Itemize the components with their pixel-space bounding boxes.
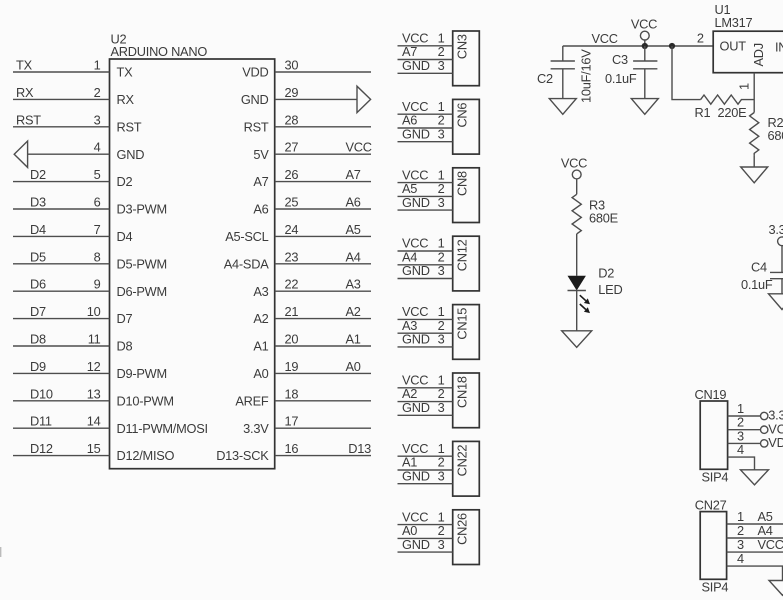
svg-text:16: 16 — [285, 441, 299, 456]
CN8 pin 2 (A5) wire + labels — [398, 181, 453, 196]
svg-text:GND: GND — [241, 92, 269, 107]
svg-text:VCC: VCC — [402, 304, 428, 319]
svg-text:2: 2 — [438, 249, 445, 264]
svg-text:13: 13 — [87, 386, 101, 401]
svg-text:GND: GND — [402, 332, 430, 347]
U2 pin 20 (A1) wire + labels — [253, 332, 371, 354]
svg-text:AREF: AREF — [235, 393, 269, 408]
svg-text:ARDUINO NANO: ARDUINO NANO — [111, 44, 208, 59]
CN22 pin 1 (VCC) wire + labels — [398, 441, 453, 456]
U2 pin 2 (RX) wire + labels — [13, 85, 134, 107]
svg-text:D2: D2 — [117, 174, 133, 189]
U2 pin 9 (D6-PWM) wire + labels — [13, 277, 167, 299]
svg-text:RST: RST — [16, 112, 41, 127]
svg-text:TX: TX — [16, 58, 33, 73]
svg-text:A4: A4 — [402, 249, 417, 264]
svg-text:ADJ: ADJ — [751, 43, 766, 66]
svg-text:GND: GND — [402, 58, 430, 73]
svg-text:D2: D2 — [30, 167, 46, 182]
svg-text:1: 1 — [737, 83, 752, 90]
svg-text:7: 7 — [94, 222, 101, 237]
svg-text:1: 1 — [737, 509, 744, 524]
CN19 pin 2 port VCC — [728, 415, 783, 437]
svg-text:27: 27 — [285, 140, 299, 155]
svg-text:VCC: VCC — [758, 537, 783, 552]
ground under CN27 pin4 — [769, 581, 783, 596]
svg-text:3: 3 — [438, 400, 445, 415]
svg-text:5V: 5V — [253, 147, 269, 162]
svg-text:RST: RST — [117, 119, 142, 134]
capacitor C3 0.1uF — [605, 46, 657, 99]
U2 pin 8 (D5-PWM) wire + labels — [13, 249, 167, 271]
CN6 pin 2 (A6) wire + labels — [398, 113, 453, 128]
power symbol 3.3V — [769, 222, 783, 272]
U1 pin 1 (ADJ) wire + number — [737, 73, 755, 113]
svg-text:OUT: OUT — [720, 39, 747, 54]
svg-text:GND: GND — [402, 126, 430, 141]
U2 pin 3 (RST) wire + labels — [13, 112, 142, 134]
svg-text:11: 11 — [88, 332, 101, 347]
svg-text:GND: GND — [402, 537, 430, 552]
svg-text:18: 18 — [285, 386, 299, 401]
svg-text:23: 23 — [285, 249, 299, 264]
CN18 pin 2 (A2) wire + labels — [398, 386, 453, 401]
svg-text:3: 3 — [438, 263, 445, 278]
ground under CN19 pin4 — [741, 470, 769, 485]
connector CN18 body — [453, 373, 480, 428]
connector CN22 body — [453, 441, 480, 496]
svg-text:VDD: VDD — [242, 65, 268, 80]
svg-text:D11-PWM/MOSI: D11-PWM/MOSI — [117, 421, 208, 436]
svg-text:29: 29 — [285, 85, 299, 100]
svg-text:VCC: VCC — [402, 167, 428, 182]
U2 pin 14 (D11-PWM/MOSI) wire + labels — [13, 414, 208, 436]
wire VCC branch down to R1 — [672, 46, 701, 100]
U2 pin 22 (A3) wire + labels — [253, 277, 371, 299]
CN26 pin 2 (A0) wire + labels — [398, 523, 453, 538]
svg-text:A3: A3 — [346, 277, 361, 292]
svg-text:A0: A0 — [346, 359, 361, 374]
CN18 pin 1 (VCC) wire + labels — [398, 373, 453, 388]
svg-text:0.1uF: 0.1uF — [741, 277, 773, 292]
svg-text:CN22: CN22 — [454, 445, 469, 477]
svg-text:D12: D12 — [30, 441, 53, 456]
U2 pin 26 (A7) wire + labels — [253, 167, 371, 189]
U2 pin 19 (A0) wire + labels — [253, 359, 371, 381]
svg-text:D7: D7 — [30, 304, 46, 319]
svg-text:D10: D10 — [30, 386, 53, 401]
U2 pin 29 (GND) wire + labels — [241, 85, 371, 113]
svg-text:3: 3 — [438, 126, 445, 141]
U2 pin 25 (A6) wire + labels — [253, 195, 371, 217]
CN27 pin 3 wire + label VCC — [727, 537, 783, 552]
connector CN19 body — [695, 387, 729, 484]
U2 pin 13 (D10-PWM) wire + labels — [13, 386, 174, 408]
capacitor C4 0.1uF — [741, 259, 783, 294]
svg-text:SIP4: SIP4 — [702, 579, 729, 594]
svg-text:D4: D4 — [30, 222, 46, 237]
U2 pin 23 (A4-SDA) wire + labels — [224, 249, 371, 271]
U2 pin 24 (A5-SCL) wire + labels — [225, 222, 371, 244]
svg-text:D13: D13 — [348, 441, 371, 456]
ground under C3 — [631, 99, 658, 115]
svg-text:GND: GND — [402, 263, 430, 278]
CN26 pin 3 (GND) wire + labels — [398, 537, 453, 552]
U2 pin 27 (5V) wire + labels — [253, 140, 371, 162]
svg-text:22: 22 — [285, 277, 299, 292]
CN8 pin 3 (GND) wire + labels — [398, 195, 453, 210]
svg-text:D10-PWM: D10-PWM — [117, 393, 174, 408]
svg-text:D3-PWM: D3-PWM — [117, 202, 167, 217]
svg-text:D9: D9 — [30, 359, 46, 374]
svg-text:3: 3 — [438, 332, 445, 347]
svg-text:3: 3 — [438, 58, 445, 73]
svg-text:3: 3 — [94, 112, 101, 127]
junction dot at VCC symbol — [642, 43, 648, 49]
svg-text:4: 4 — [94, 140, 101, 155]
svg-text:CN6: CN6 — [454, 103, 469, 128]
svg-text:C2: C2 — [537, 71, 553, 86]
svg-text:5: 5 — [94, 167, 101, 182]
svg-text:GND: GND — [402, 400, 430, 415]
svg-text:17: 17 — [285, 414, 299, 429]
svg-text:CN3: CN3 — [454, 34, 469, 59]
svg-text:D8: D8 — [30, 332, 46, 347]
svg-text:14: 14 — [87, 414, 101, 429]
svg-text:19: 19 — [285, 359, 299, 374]
svg-text:TX: TX — [117, 65, 134, 80]
svg-text:9: 9 — [94, 277, 101, 292]
IC U2 ARDUINO NANO body — [110, 32, 275, 469]
U2 pin 5 (D2) wire + labels — [13, 167, 132, 189]
svg-text:D11: D11 — [30, 414, 52, 429]
svg-text:D7: D7 — [117, 311, 133, 326]
clipped mark at left edge — [0, 547, 2, 557]
U2 pin 15 (D12/MISO) wire + labels — [13, 441, 175, 463]
svg-text:2: 2 — [697, 31, 704, 46]
svg-text:3: 3 — [737, 537, 744, 552]
svg-text:1: 1 — [438, 441, 445, 456]
U2 pin 17 (3.3V) wire + labels — [243, 414, 371, 436]
CN12 pin 3 (GND) wire + labels — [398, 263, 453, 278]
CN19 pin 4 wire to ground — [728, 442, 755, 470]
U1 pin 2 number — [697, 31, 704, 46]
wire VCC rail to U1 OUT — [563, 45, 713, 47]
svg-text:1: 1 — [438, 99, 445, 114]
svg-text:28: 28 — [285, 112, 299, 127]
U2 pin 28 (RST) wire + labels — [244, 112, 371, 134]
svg-text:VCC: VCC — [402, 99, 428, 114]
svg-text:1: 1 — [438, 167, 445, 182]
svg-text:26: 26 — [285, 167, 299, 182]
svg-text:21: 21 — [285, 304, 299, 319]
svg-text:D5: D5 — [30, 249, 46, 264]
CN19 pin 1 port 3.3V — [728, 401, 783, 423]
svg-text:A2: A2 — [402, 386, 417, 401]
junction dot at R1 branch — [669, 43, 675, 49]
svg-text:GND: GND — [402, 468, 430, 483]
CN15 pin 2 (A3) wire + labels — [398, 318, 453, 333]
svg-text:A3: A3 — [253, 284, 268, 299]
connector CN27 body — [695, 497, 729, 594]
svg-text:4: 4 — [737, 442, 744, 457]
svg-text:LM317: LM317 — [715, 15, 753, 30]
U2 pin 10 (D7) wire + labels — [13, 304, 132, 326]
CN3 pin 1 (VCC) wire + labels — [398, 31, 453, 46]
svg-text:A1: A1 — [346, 332, 361, 347]
svg-text:D6-PWM: D6-PWM — [117, 284, 167, 299]
CN27 pin 4 wire to ground — [727, 551, 783, 580]
svg-text:SIP4: SIP4 — [702, 470, 729, 485]
U2 pin 21 (A2) wire + labels — [253, 304, 371, 326]
svg-text:CN12: CN12 — [454, 239, 469, 271]
ground under LED — [562, 331, 592, 348]
power symbol VCC (top) — [631, 16, 657, 46]
U2 pin 30 (VDD) wire + labels — [242, 58, 371, 80]
CN18 pin 3 (GND) wire + labels — [398, 400, 453, 415]
U2 pin 7 (D4) wire + labels — [13, 222, 132, 244]
power symbol VCC (LED branch) — [561, 155, 587, 194]
ground under C2 — [549, 99, 576, 115]
svg-text:3.3V: 3.3V — [769, 222, 783, 237]
CN12 pin 2 (A4) wire + labels — [398, 249, 453, 264]
svg-text:680E: 680E — [768, 128, 783, 143]
svg-text:12: 12 — [87, 359, 101, 374]
U2 pin 11 (D8) wire + labels — [13, 332, 132, 354]
svg-text:RST: RST — [244, 119, 269, 134]
svg-text:10: 10 — [87, 304, 101, 319]
svg-text:RX: RX — [16, 85, 34, 100]
svg-text:A7: A7 — [402, 44, 417, 59]
CN6 pin 3 (GND) wire + labels — [398, 126, 453, 141]
U2 pin 16 (D13-SCK) wire + labels — [216, 441, 371, 463]
CN27 pin 1 wire + label A5 — [727, 509, 783, 524]
svg-text:0.1uF: 0.1uF — [605, 71, 637, 86]
CN22 pin 2 (A1) wire + labels — [398, 455, 453, 470]
capacitor C2 10uF/16V — [537, 46, 594, 103]
svg-text:1: 1 — [94, 58, 101, 73]
U2 pin 1 (TX) wire + labels — [13, 58, 133, 80]
svg-text:A4: A4 — [346, 249, 361, 264]
svg-text:GND: GND — [117, 147, 145, 162]
svg-text:A2: A2 — [346, 304, 361, 319]
svg-text:220E: 220E — [718, 105, 747, 120]
resistor R1 220E — [695, 95, 755, 120]
svg-text:20: 20 — [285, 332, 299, 347]
wire R3 to LED — [576, 234, 578, 276]
svg-text:D8: D8 — [117, 339, 133, 354]
svg-text:D13-SCK: D13-SCK — [216, 448, 269, 463]
svg-text:A5: A5 — [346, 222, 361, 237]
svg-text:D5-PWM: D5-PWM — [117, 256, 167, 271]
ground under C4 — [769, 294, 783, 310]
svg-text:2: 2 — [737, 523, 744, 538]
U2 pin 18 (AREF) wire + labels — [235, 386, 371, 408]
svg-text:1: 1 — [438, 509, 445, 524]
svg-text:8: 8 — [94, 249, 101, 264]
connector CN26 body — [453, 510, 480, 565]
svg-text:A6: A6 — [253, 202, 268, 217]
wire LED to ground — [576, 291, 578, 331]
resistor R3 680E — [572, 194, 618, 234]
svg-text:1: 1 — [438, 304, 445, 319]
connector CN12 body — [453, 236, 480, 291]
CN27 pin 2 wire + label A4 — [727, 523, 783, 538]
svg-text:A6: A6 — [346, 195, 361, 210]
U2 pin 6 (D3-PWM) wire + labels — [13, 195, 167, 217]
svg-text:RX: RX — [117, 92, 135, 107]
svg-text:D12/MISO: D12/MISO — [117, 448, 175, 463]
svg-text:A0: A0 — [253, 366, 268, 381]
svg-text:3: 3 — [438, 468, 445, 483]
svg-text:2: 2 — [94, 85, 101, 100]
svg-text:D9-PWM: D9-PWM — [117, 366, 167, 381]
svg-text:25: 25 — [285, 195, 299, 210]
svg-text:CN8: CN8 — [454, 171, 469, 196]
svg-text:VCC: VCC — [402, 509, 428, 524]
CN26 pin 1 (VCC) wire + labels — [398, 509, 453, 524]
U2 pin 12 (D9-PWM) wire + labels — [13, 359, 167, 381]
CN6 pin 1 (VCC) wire + labels — [398, 99, 453, 114]
CN8 pin 1 (VCC) wire + labels — [398, 167, 453, 182]
CN19 pin 3 port VDD — [728, 428, 783, 450]
CN3 pin 3 (GND) wire + labels — [398, 58, 453, 73]
svg-text:A4: A4 — [758, 523, 773, 538]
svg-text:A5: A5 — [758, 509, 773, 524]
svg-text:4: 4 — [737, 551, 744, 566]
ground under R2 — [741, 167, 768, 183]
svg-text:6: 6 — [94, 195, 101, 210]
svg-text:VCC: VCC — [631, 16, 657, 31]
CN3 pin 2 (A7) wire + labels — [398, 44, 453, 59]
svg-text:IN: IN — [775, 40, 783, 55]
svg-text:VDD: VDD — [768, 435, 783, 450]
CN15 pin 1 (VCC) wire + labels — [398, 304, 453, 319]
svg-text:C3: C3 — [612, 52, 628, 67]
svg-text:VCC: VCC — [561, 155, 587, 170]
svg-text:CN26: CN26 — [454, 513, 469, 545]
svg-text:C4: C4 — [751, 259, 767, 274]
svg-text:VCC: VCC — [592, 31, 618, 46]
net label VCC on rail — [592, 31, 618, 46]
svg-text:3: 3 — [438, 537, 445, 552]
IC U1 LM317 body — [713, 2, 783, 73]
svg-text:A4-SDA: A4-SDA — [224, 256, 269, 271]
connector CN6 body — [453, 99, 480, 154]
svg-text:A2: A2 — [253, 311, 268, 326]
svg-text:D2: D2 — [598, 266, 614, 281]
svg-text:VCC: VCC — [402, 441, 428, 456]
svg-text:R1: R1 — [695, 105, 711, 120]
svg-text:GND: GND — [402, 195, 430, 210]
svg-text:CN27: CN27 — [695, 497, 727, 512]
svg-text:CN19: CN19 — [695, 387, 727, 402]
resistor R2 680E — [750, 113, 783, 168]
svg-text:LED: LED — [598, 282, 622, 297]
svg-text:A7: A7 — [346, 167, 361, 182]
U2 pin 4 (GND) wire + labels — [14, 140, 144, 168]
CN15 pin 3 (GND) wire + labels — [398, 332, 453, 347]
connector CN15 body — [453, 305, 480, 360]
svg-text:D6: D6 — [30, 277, 46, 292]
CN22 pin 3 (GND) wire + labels — [398, 468, 453, 483]
connector CN8 body — [453, 168, 480, 223]
svg-text:CN18: CN18 — [454, 376, 469, 408]
svg-text:A7: A7 — [253, 174, 268, 189]
svg-text:15: 15 — [87, 441, 101, 456]
svg-text:30: 30 — [285, 58, 299, 73]
svg-text:A1: A1 — [253, 339, 268, 354]
svg-text:24: 24 — [285, 222, 299, 237]
svg-text:680E: 680E — [589, 210, 618, 225]
svg-text:VCC: VCC — [346, 140, 372, 155]
svg-text:3.3V: 3.3V — [243, 421, 269, 436]
svg-text:CN15: CN15 — [454, 308, 469, 340]
svg-text:2: 2 — [438, 386, 445, 401]
svg-text:D3: D3 — [30, 195, 46, 210]
svg-text:2: 2 — [438, 44, 445, 59]
svg-text:A5-SCL: A5-SCL — [225, 229, 268, 244]
connector CN3 body — [453, 31, 480, 86]
CN12 pin 1 (VCC) wire + labels — [398, 236, 453, 251]
svg-text:3: 3 — [438, 195, 445, 210]
svg-text:D4: D4 — [117, 229, 133, 244]
LED D2 — [568, 266, 623, 314]
svg-text:10uF/16V: 10uF/16V — [579, 49, 594, 103]
